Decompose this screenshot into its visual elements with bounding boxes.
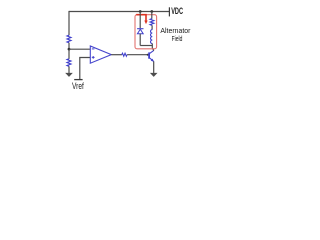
red current arrow — [136, 15, 146, 21]
wire between R1 and R2 — [68, 43, 70, 59]
transistor Q1 base bar — [148, 52, 150, 58]
op-amp U1 — [90, 46, 111, 63]
ground (emitter) — [150, 73, 158, 77]
wire emitter to ground — [153, 61, 155, 73]
wire field bottom U — [140, 45, 152, 47]
wire to transistor base — [127, 54, 148, 56]
node base pin — [147, 54, 149, 56]
wire diode branch upper — [139, 12, 141, 29]
svg-text:Field: Field — [172, 34, 183, 43]
node divider junction — [68, 48, 71, 51]
wire R4 to L1 — [151, 25, 153, 29]
wire non-inverting input from Vref — [80, 58, 91, 80]
op-amp minus sign — [92, 48, 95, 50]
resistor R3 (base drive) — [122, 53, 127, 56]
svg-text:VDC: VDC — [171, 6, 183, 16]
wire top rail VDC — [69, 11, 169, 13]
red box alternator field — [135, 15, 157, 49]
diode D1 triangle — [137, 29, 143, 34]
ground (divider) — [65, 73, 73, 77]
node rail-diode junction — [139, 10, 142, 13]
resistor R4 field resistance — [150, 19, 154, 26]
wire diode anode down — [139, 34, 141, 46]
wire L1 bottom — [151, 44, 153, 46]
wire R2 to ground — [68, 66, 70, 73]
wire op-amp output — [111, 54, 122, 56]
wire field branch upper — [151, 12, 153, 19]
inductor L1 field winding — [151, 30, 153, 44]
node rail-field junction — [150, 10, 153, 13]
wire left rail upper — [68, 11, 70, 35]
resistor R1 — [67, 35, 71, 43]
VDC terminal bar — [168, 7, 170, 16]
diode D1 cathode bar — [137, 28, 143, 30]
transistor Q1 emitter stroke — [149, 58, 154, 62]
transistor Q1 emitter arrowhead — [151, 59, 154, 62]
resistor R2 — [67, 59, 71, 67]
svg-text:Vref: Vref — [72, 81, 84, 91]
wire inverting input — [69, 48, 90, 50]
transistor Q1 collector stroke — [149, 50, 154, 53]
wire collector pin — [152, 45, 154, 50]
Vref terminal bar — [74, 79, 82, 81]
op-amp plus sign — [92, 56, 95, 59]
